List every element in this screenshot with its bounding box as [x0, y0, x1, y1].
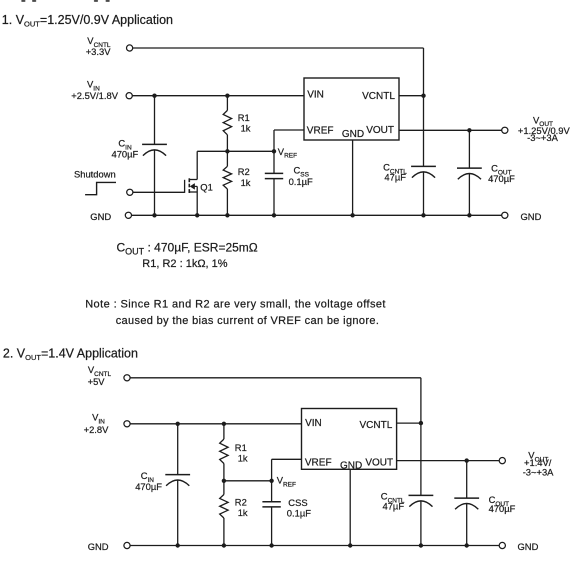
- wire VIN to R1: [226, 96, 228, 111]
- wire R2 to GND (circuit 2): [223, 518, 225, 546]
- node VREF junction (circuit 2): [269, 479, 273, 483]
- junction R1/R2/VREF: [225, 149, 229, 153]
- svg-text:1k: 1k: [238, 507, 248, 518]
- transistor Q1 source stub: [189, 191, 197, 193]
- wire VREF row (circuit 2): [224, 480, 272, 482]
- wire VREF pin stub: [274, 129, 304, 131]
- node VOUT terminal (circuit 1): [502, 127, 508, 133]
- svg-text:1k: 1k: [238, 452, 248, 463]
- transistor Q1 drain stub: [189, 179, 197, 181]
- svg-text:VOUT: VOUT: [366, 125, 394, 136]
- ground terminal right (circuit 1): [502, 212, 508, 218]
- wire CCNTL to GND: [423, 172, 425, 215]
- op-amp/regulator U1 box (circuit 2): [302, 409, 397, 470]
- svg-text:R1: R1: [235, 442, 247, 453]
- junction COUT/VOUT (circuit 2): [465, 458, 469, 462]
- transistor Q1 body arrow: [190, 184, 194, 190]
- svg-text:VCNTL: VCNTL: [362, 91, 395, 102]
- svg-text:CSS: CSS: [288, 497, 307, 508]
- resistor R2 1k (circuit 2): [220, 495, 228, 519]
- junction CSS/GND: [272, 213, 276, 217]
- svg-text:1k: 1k: [241, 177, 251, 188]
- capacitor COUT 470uF (circuit 2): [454, 497, 479, 499]
- junction CCNTL/GND (circuit 2): [419, 543, 423, 547]
- wire GND pin to GND rail: [352, 140, 354, 215]
- svg-text:R2: R2: [235, 496, 247, 507]
- transistor Q1 channel segments: [188, 178, 190, 182]
- svg-text:470µF: 470µF: [135, 481, 162, 492]
- svg-text:R1, R2 : 1kΩ, 1%: R1, R2 : 1kΩ, 1%: [142, 258, 227, 270]
- svg-text:470µF: 470µF: [489, 503, 516, 514]
- wire VCNTL pin stub: [399, 95, 424, 97]
- wire VREF node to CSS (circuit 2): [271, 481, 273, 502]
- shutdown step waveform: [85, 182, 116, 194]
- junction CIN/VIN (circuit 2): [176, 422, 180, 426]
- capacitor COUT 470uF (circuit 1): [457, 167, 482, 169]
- wire VCNTL pin stub (circuit 2): [397, 422, 421, 424]
- wire VOUT rail: [399, 129, 502, 131]
- svg-text:+2.8V: +2.8V: [84, 424, 110, 435]
- svg-text:0.1µF: 0.1µF: [289, 176, 313, 187]
- wire VCNTL rail: [133, 47, 424, 49]
- junction R1/R2/VREF (circuit 2): [222, 479, 226, 483]
- resistor R2 1k (circuit 1): [223, 166, 231, 189]
- junction COUT/GND: [467, 213, 471, 217]
- wire VOUT to COUT (circuit 2): [466, 461, 468, 499]
- svg-text:47µF: 47µF: [383, 500, 405, 511]
- wire VOUT to COUT: [468, 130, 470, 168]
- svg-text:R2: R2: [238, 166, 250, 177]
- wire COUT to GND: [468, 174, 470, 216]
- wire VREF pin stub (circuit 2): [272, 458, 302, 460]
- wire VIN rail (circuit 2): [130, 423, 301, 425]
- ground rail (circuit 1): [132, 214, 502, 216]
- junction R1/VIN (circuit 2): [222, 422, 226, 426]
- junction ICGND/GND: [350, 213, 354, 217]
- junction COUT/VOUT: [467, 128, 471, 132]
- junction CCNTL/GND: [421, 213, 425, 217]
- svg-text:2. VOUT=1.4V Application: 2. VOUT=1.4V Application: [3, 346, 138, 362]
- svg-text:VIN: VIN: [305, 418, 322, 429]
- capacitor CCNTL 47uF (circuit 2): [409, 494, 434, 496]
- node Shutdown terminal: [127, 189, 133, 195]
- wire CSS to GND: [273, 179, 275, 216]
- svg-text:-3~+3A: -3~+3A: [527, 132, 558, 143]
- junction VCNTL pin / CCNTL (circuit 2): [419, 421, 423, 425]
- wire CSS to GND (circuit 2): [271, 507, 273, 546]
- svg-text:GND: GND: [518, 541, 539, 552]
- svg-text:47µF: 47µF: [384, 171, 406, 182]
- svg-text:GND: GND: [521, 211, 542, 222]
- wire VCNTL vertical drop (circuit 2): [420, 378, 422, 496]
- node VCNTL terminal (circuit 2): [124, 375, 130, 381]
- wire CIN to GND (circuit 2): [177, 480, 179, 545]
- svg-text:R1: R1: [238, 112, 250, 123]
- junction COUT/GND (circuit 2): [465, 543, 469, 547]
- wire Shutdown to Q1 gate: [133, 191, 185, 193]
- svg-text:VREF: VREF: [307, 125, 334, 136]
- cropped heading text (descenders): [21, 0, 110, 2]
- junction CIN/VIN: [152, 94, 156, 98]
- svg-text:GND: GND: [90, 211, 111, 222]
- svg-text:0.1µF: 0.1µF: [287, 508, 311, 519]
- wire VREF row: [197, 150, 274, 152]
- wire VIN to CIN: [154, 96, 156, 145]
- wire VIN rail: [132, 95, 304, 97]
- svg-text:VCNTL: VCNTL: [360, 420, 393, 431]
- capacitor CSS 0.1uF (circuit 2): [262, 501, 280, 503]
- junction VCNTL pin / CCNTL: [421, 94, 425, 98]
- svg-text:GND: GND: [88, 541, 109, 552]
- wire R1 to VREF row: [226, 135, 228, 152]
- wire VIN to CIN (circuit 2): [177, 424, 179, 475]
- svg-text:Shutdown: Shutdown: [74, 169, 116, 180]
- capacitor CIN 470uF (circuit 1): [142, 143, 167, 145]
- svg-text:GND: GND: [342, 129, 364, 140]
- wire VREF node to CSS: [273, 151, 275, 173]
- svg-text:VREF: VREF: [305, 457, 332, 468]
- capacitor CSS 0.1uF (circuit 1): [265, 172, 283, 174]
- svg-text:caused by the bias current of: caused by the bias current of VREF can b…: [116, 315, 380, 327]
- svg-text:VIN: VIN: [307, 90, 324, 101]
- junction CSS/GND (circuit 2): [269, 543, 273, 547]
- wire Q1 drain to VREF row: [196, 151, 198, 179]
- wire VREF node up to pin: [273, 130, 275, 151]
- wire VCNTL vertical drop: [423, 48, 425, 166]
- transistor Q1 gate bar: [184, 180, 186, 193]
- wire COUT to GND (circuit 2): [466, 504, 468, 546]
- svg-text:VOUT: VOUT: [365, 457, 393, 468]
- ground terminal left (circuit 2): [124, 542, 130, 548]
- capacitor CIN 470uF (circuit 2): [165, 474, 190, 476]
- wire VIN to R1 (circuit 2): [223, 424, 225, 439]
- svg-text:470µF: 470µF: [488, 173, 515, 184]
- wire Q1 source to GND: [196, 186, 198, 215]
- svg-text:470µF: 470µF: [112, 148, 139, 159]
- wire VOUT rail (circuit 2): [397, 460, 500, 462]
- wire VREF row to R2: [226, 151, 228, 166]
- wire R2 to GND: [226, 189, 228, 215]
- wire R1 to VREF row (circuit 2): [223, 464, 225, 481]
- svg-text:+5V: +5V: [88, 376, 106, 387]
- svg-text:+3.3V: +3.3V: [86, 46, 112, 57]
- node VOUT terminal (circuit 2): [499, 458, 505, 464]
- node VIN terminal (circuit 2): [124, 421, 130, 427]
- resistor R1 1k (circuit 1): [223, 110, 231, 134]
- resistor R1 1k (circuit 2): [220, 439, 228, 463]
- wire VREF row to R2 (circuit 2): [223, 481, 225, 495]
- ground terminal right (circuit 2): [499, 542, 505, 548]
- wire VCNTL rail (circuit 2): [130, 377, 421, 379]
- junction CIN/GND (circuit 2): [176, 543, 180, 547]
- junction CIN/GND: [152, 213, 156, 217]
- svg-text:Q1: Q1: [200, 181, 213, 192]
- svg-text:-3~+3A: -3~+3A: [523, 466, 554, 477]
- node VIN terminal (circuit 1): [126, 93, 132, 99]
- ground rail (circuit 2): [130, 545, 499, 547]
- ground terminal left (circuit 1): [125, 212, 131, 218]
- svg-text:GND: GND: [340, 460, 362, 471]
- junction Q1/GND: [195, 213, 199, 217]
- wire CCNTL to GND (circuit 2): [420, 501, 422, 546]
- wire GND pin to GND rail (circuit 2): [349, 469, 351, 545]
- capacitor CCNTL 47uF (circuit 1): [411, 165, 436, 167]
- junction R1/VIN: [225, 94, 229, 98]
- junction R2/GND (circuit 2): [222, 543, 226, 547]
- wire CIN to GND: [154, 150, 156, 215]
- svg-text:1k: 1k: [241, 122, 251, 133]
- junction ICGND/GND (circuit 2): [348, 543, 352, 547]
- node VCNTL terminal (circuit 1): [127, 45, 133, 51]
- wire VREF node up to pin (circuit 2): [271, 459, 273, 481]
- svg-text:Note : Since R1 and R2 are ver: Note : Since R1 and R2 are very small, t…: [85, 298, 386, 310]
- svg-text:+2.5V/1.8V: +2.5V/1.8V: [71, 90, 118, 101]
- op-amp/regulator U1 box (circuit 1): [304, 78, 399, 140]
- junction R2/GND: [225, 213, 229, 217]
- node VREF junction: [272, 149, 276, 153]
